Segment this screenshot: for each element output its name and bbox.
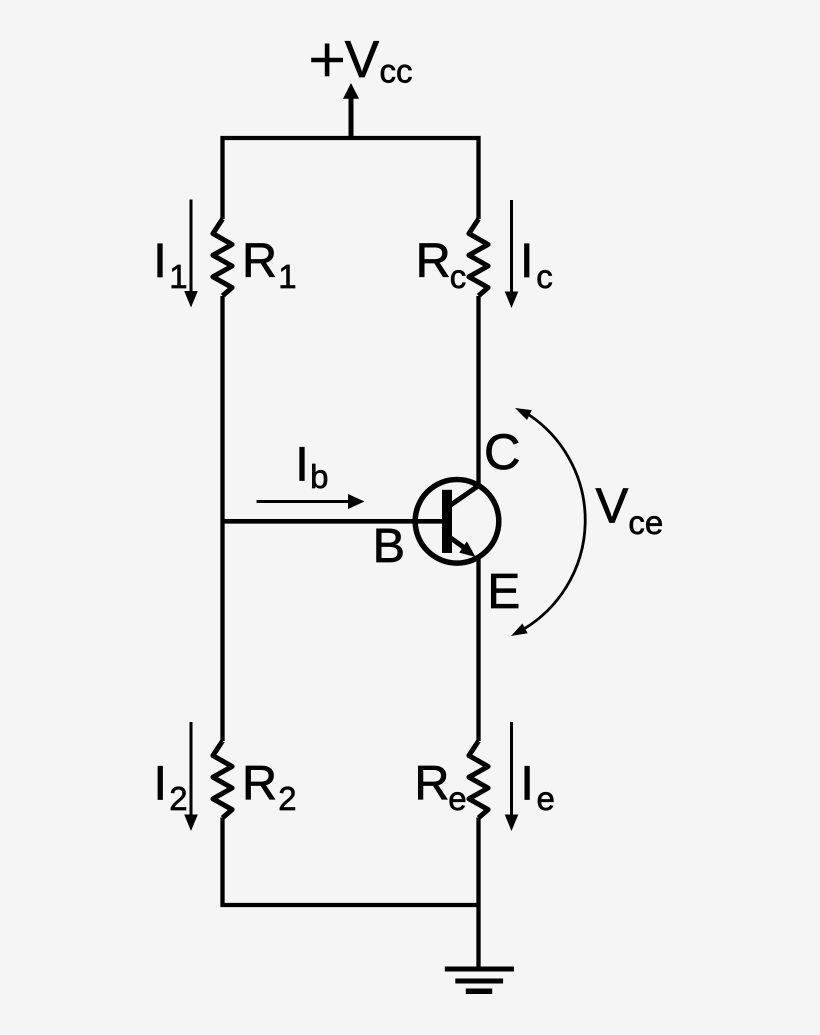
svg-text:1: 1 [278,258,296,295]
svg-text:I: I [154,757,168,811]
svg-text:V: V [345,30,380,88]
svg-text:I: I [520,757,534,811]
svg-text:I: I [520,234,534,288]
svg-text:2: 2 [278,780,296,817]
svg-text:I: I [153,234,167,288]
svg-text:R: R [416,234,451,288]
svg-text:b: b [310,458,328,495]
svg-text:cc: cc [380,53,413,90]
svg-text:C: C [484,423,520,480]
svg-text:e: e [537,780,555,817]
svg-text:1: 1 [169,258,187,295]
svg-text:c: c [536,258,553,295]
svg-text:2: 2 [169,780,187,817]
svg-text:B: B [373,519,405,573]
svg-text:V: V [596,479,629,534]
svg-text:E: E [487,564,520,619]
svg-text:ce: ce [628,504,663,541]
svg-text:I: I [295,437,309,491]
svg-text:c: c [450,258,467,295]
svg-text:e: e [448,780,466,817]
svg-text:R: R [414,757,449,811]
svg-text:R: R [242,234,277,288]
svg-text:R: R [242,757,277,811]
